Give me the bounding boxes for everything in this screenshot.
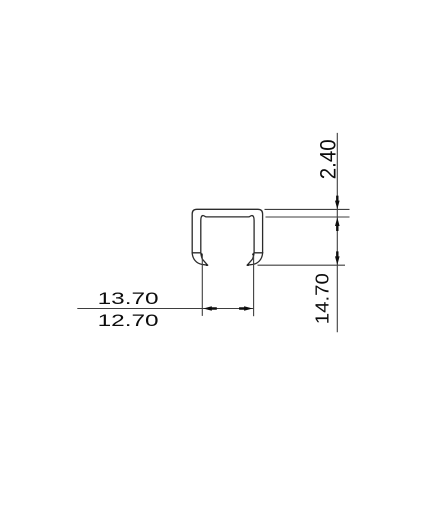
extension line left hook — [201, 255, 203, 316]
extension line outer top surface — [265, 208, 350, 210]
svg-text:13.70: 13.70 — [98, 289, 159, 308]
extension line right hook — [253, 255, 255, 316]
arrow down at hook bottom line — [335, 251, 340, 265]
svg-text:14.70: 14.70 — [311, 273, 332, 324]
extension line hook bottom — [258, 264, 346, 266]
right hook outer bend — [247, 253, 262, 265]
right hook tip dot — [247, 264, 249, 266]
left hook outer bend — [192, 253, 207, 265]
arrow left at left extension line — [203, 306, 217, 311]
right hook seam junction blob — [252, 253, 254, 255]
extension line inner top surface — [266, 216, 350, 218]
left hook lip edge — [201, 253, 208, 265]
left hook tip dot — [206, 264, 208, 266]
svg-text:12.70: 12.70 — [98, 311, 159, 330]
bottom dimension line — [77, 308, 253, 310]
left hook seam junction blob — [200, 253, 202, 255]
profile inner contour — [201, 216, 254, 253]
right wall bend seam — [254, 252, 263, 254]
left wall bend seam — [192, 252, 201, 254]
right hook lip edge — [247, 253, 254, 265]
profile outer contour — [192, 209, 262, 253]
vertical dimension line right — [336, 133, 338, 332]
arrow up below inner top surface — [335, 217, 340, 231]
svg-text:2.40: 2.40 — [315, 139, 340, 179]
arrow right at right extension line — [239, 306, 253, 311]
arrow down at outer top surface — [335, 196, 340, 210]
